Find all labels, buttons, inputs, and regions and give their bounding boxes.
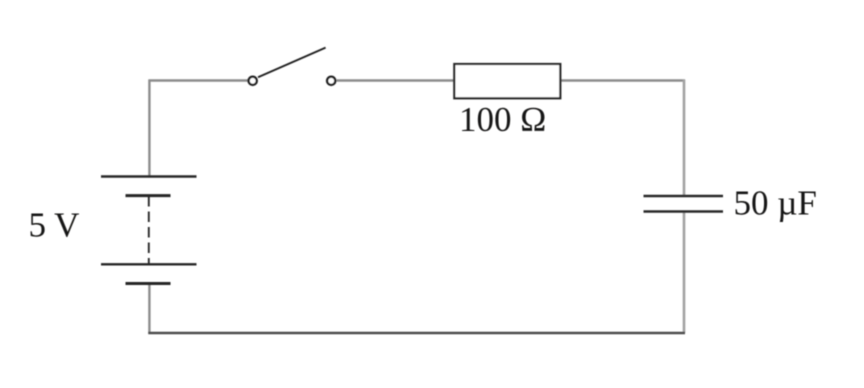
capacitor C1 bottom plate (644, 210, 724, 213)
capacitor C1 top plate (644, 195, 724, 198)
svg-text:50 µF: 50 µF (734, 184, 817, 223)
svg-text:100 Ω: 100 Ω (459, 100, 546, 139)
switch S1 blade (258, 48, 326, 78)
wire bottom (148, 332, 685, 334)
battery B1 short plate 2 (126, 282, 171, 285)
wire battery to bottom-left corner (148, 284, 150, 335)
switch S1 right contact (327, 77, 335, 85)
wire switch to resistor (336, 79, 454, 81)
battery B1 long plate 1 (101, 175, 197, 177)
battery B1 long plate 2 (101, 263, 197, 265)
wire resistor to top-right corner (561, 79, 686, 81)
battery B1 short plate 1 (126, 194, 171, 197)
wire capacitor to bottom-right corner (683, 212, 686, 333)
battery B1 dashed link (148, 196, 150, 265)
switch S1 left contact (249, 77, 257, 85)
wire top-left horizontal (149, 79, 249, 81)
svg-text:5 V: 5 V (29, 206, 80, 245)
wire top-left vertical to battery (148, 80, 150, 177)
resistor R1 (454, 64, 560, 98)
wire top-right vertical to capacitor (683, 80, 686, 196)
